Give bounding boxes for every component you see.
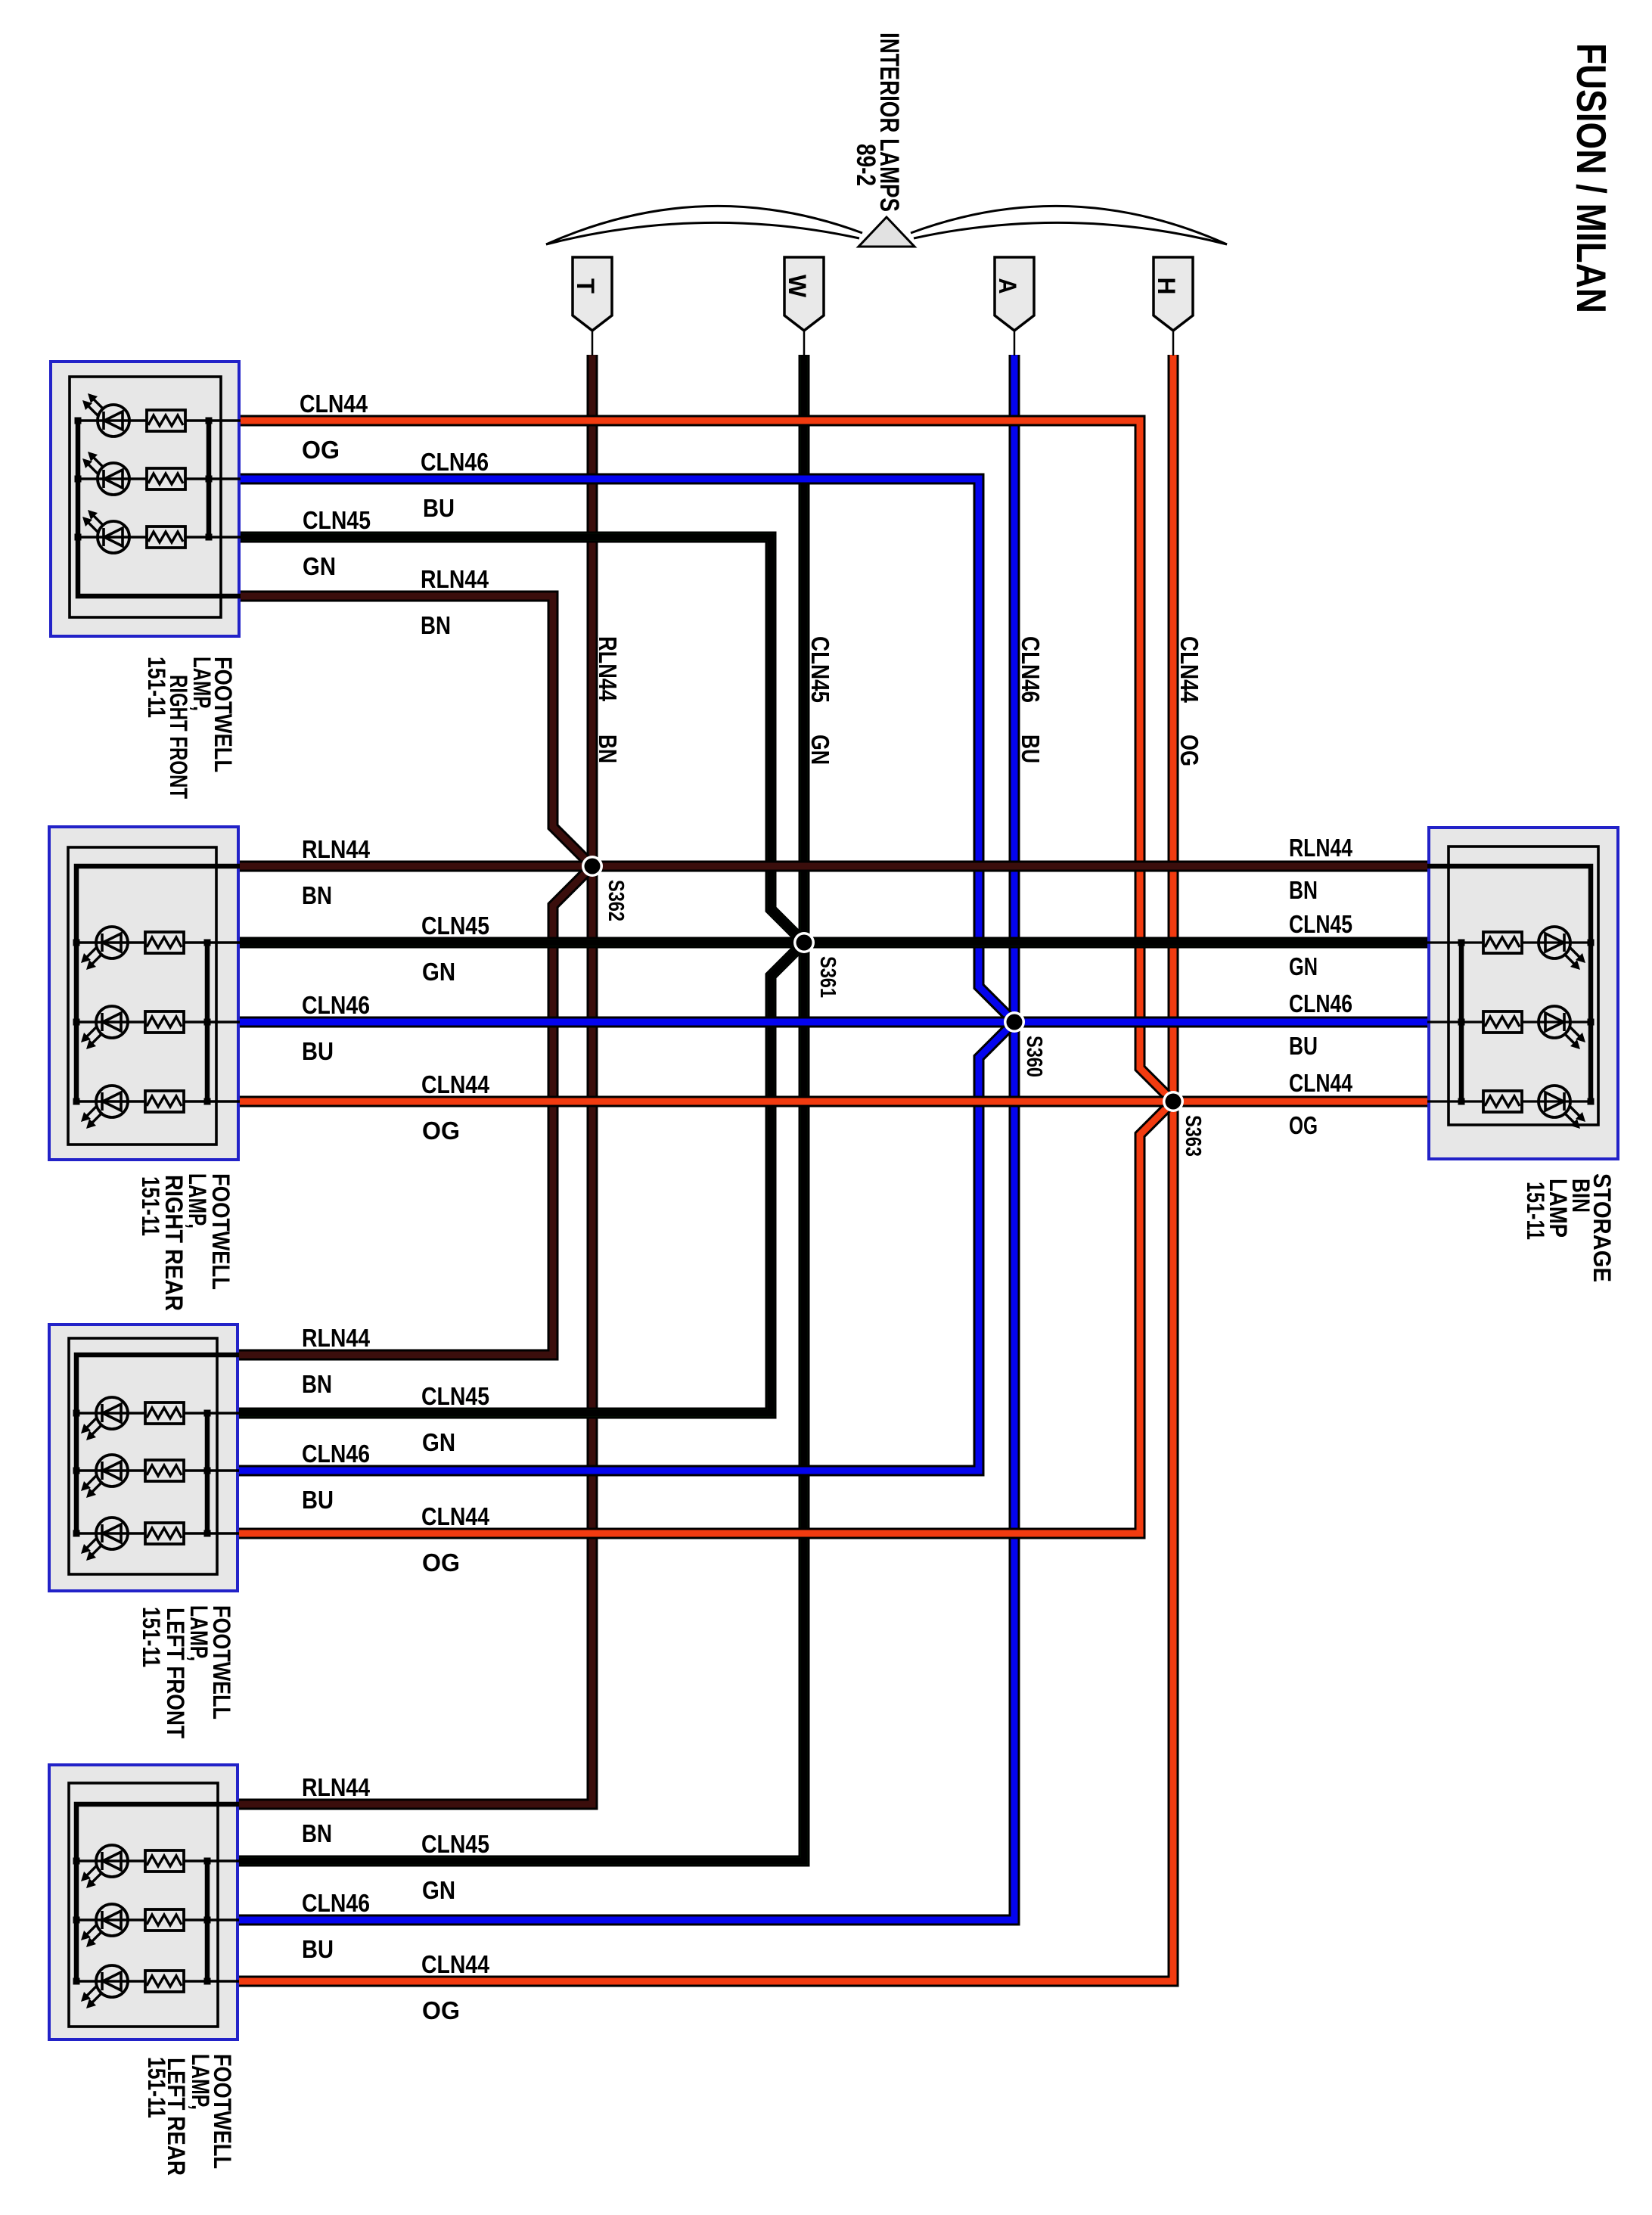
svg-text:CLN46: CLN46: [302, 1889, 370, 1917]
svg-text:151-11: 151-11: [137, 1176, 164, 1236]
FOOTWELL LAMP LEFT REAR LED 2: [81, 1904, 128, 1947]
splice junction S362: [582, 856, 603, 877]
FOOTWELL LAMP RIGHT REAR resistor 2: [145, 1011, 184, 1033]
wire CLN46 BU from FOOTWELL LAMP RIGHT REAR to STORAGE BIN LAMP: [233, 1017, 1435, 1028]
FOOTWELL LAMP RIGHT FRONT LED 1: [82, 393, 129, 436]
FOOTWELL LAMP LEFT FRONT inner case: [69, 1338, 217, 1574]
FOOTWELL LAMP LEFT REAR junction dots row 2: [73, 1917, 211, 1924]
FOOTWELL LAMP LEFT REAR row 1 wire: [76, 1859, 239, 1862]
svg-text:CLN46: CLN46: [302, 991, 370, 1019]
FOOTWELL LAMP RIGHT FRONT LED 2: [82, 452, 129, 495]
FOOTWELL LAMP LEFT REAR junction dots row 1: [73, 1858, 211, 1865]
svg-text:T: T: [572, 278, 599, 294]
FOOTWELL LAMP LEFT FRONT LED 1: [81, 1397, 128, 1440]
FOOTWELL LAMP RIGHT FRONT return bus: [78, 421, 241, 596]
svg-text:CLN44: CLN44: [421, 1950, 490, 1978]
FOOTWELL LAMP RIGHT REAR row 1 wire: [76, 941, 240, 944]
FOOTWELL LAMP RIGHT FRONT resistor 2: [147, 468, 185, 489]
FOOTWELL LAMP LEFT REAR supply bus: [205, 1861, 210, 1981]
FOOTWELL LAMP LEFT REAR row 2 wire: [76, 1918, 239, 1921]
svg-text:CLN44: CLN44: [1175, 636, 1203, 704]
FOOTWELL LAMP LEFT REAR return bus: [76, 1804, 239, 1981]
svg-text:CLN44: CLN44: [300, 390, 368, 418]
connector box FOOTWELL LAMP RIGHT FRONT (outer): [51, 362, 239, 636]
svg-text:151-11: 151-11: [143, 657, 170, 718]
wire CLN45 GN trunk from flag W to FOOTWELL LAMP LEFT REAR: [233, 355, 804, 1861]
FOOTWELL LAMP RIGHT FRONT resistor 1: [147, 410, 185, 431]
STORAGE BIN LAMP LED 1: [1539, 927, 1585, 970]
STORAGE BIN LAMP LED 2: [1539, 1006, 1585, 1049]
svg-text:OG: OG: [1175, 735, 1203, 766]
svg-text:CLN45: CLN45: [303, 506, 371, 534]
FOOTWELL LAMP RIGHT FRONT junction dots row 2: [75, 476, 213, 483]
FOOTWELL LAMP LEFT FRONT resistor 1: [145, 1403, 184, 1424]
svg-text:S361: S361: [815, 956, 840, 998]
FOOTWELL LAMP LEFT FRONT return bus: [76, 1355, 239, 1533]
STORAGE BIN LAMP junction dots row 1: [1458, 940, 1595, 946]
svg-text:BN: BN: [1289, 876, 1318, 904]
wire CLN46 BU trunk from flag A to FOOTWELL LAMP LEFT REAR: [233, 355, 1014, 1920]
FOOTWELL LAMP RIGHT FRONT supply bus: [206, 421, 212, 537]
svg-text:CLN45: CLN45: [421, 912, 489, 940]
FOOTWELL LAMP RIGHT REAR LED 3: [81, 1086, 128, 1129]
svg-text:RLN44: RLN44: [421, 565, 489, 593]
harness brace left arc: [546, 206, 862, 244]
FOOTWELL LAMP RIGHT REAR row 2 wire: [76, 1021, 240, 1024]
connector box FOOTWELL LAMP RIGHT REAR (outer): [49, 827, 238, 1160]
wire CLN44 OG trunk from flag H to FOOTWELL LAMP LEFT REAR: [233, 355, 1173, 1981]
svg-text:CLN46: CLN46: [302, 1440, 370, 1468]
svg-text:RLN44: RLN44: [1289, 834, 1353, 862]
STORAGE BIN LAMP row 2 wire: [1427, 1021, 1591, 1023]
svg-text:LEFT FRONT: LEFT FRONT: [162, 1608, 189, 1738]
svg-text:RLN44: RLN44: [594, 636, 622, 702]
wire CLN45 GN link RIGHT FRONT to S361 to LEFT FRONT: [233, 537, 804, 1413]
connector box FOOTWELL LAMP LEFT REAR (outer): [49, 1765, 238, 2039]
svg-text:S363: S363: [1181, 1115, 1205, 1157]
STORAGE BIN LAMP junction dots row 3: [1458, 1098, 1595, 1105]
STORAGE BIN LAMP return bus: [1427, 866, 1591, 1101]
circuit flag T: [572, 257, 612, 356]
FOOTWELL LAMP RIGHT REAR return bus: [76, 866, 240, 1101]
svg-text:OG: OG: [1289, 1111, 1318, 1139]
FOOTWELL LAMP LEFT REAR resistor 3: [145, 1971, 184, 1992]
svg-text:CLN45: CLN45: [1289, 910, 1352, 938]
FOOTWELL LAMP LEFT FRONT LED 3: [81, 1518, 128, 1561]
svg-text:BN: BN: [302, 1819, 332, 1847]
svg-text:S362: S362: [604, 880, 628, 921]
svg-text:BU: BU: [302, 1037, 334, 1065]
STORAGE BIN LAMP junction dots row 2: [1458, 1019, 1595, 1026]
splice junction S363: [1163, 1091, 1184, 1112]
svg-text:RLN44: RLN44: [302, 1773, 371, 1801]
FOOTWELL LAMP RIGHT REAR resistor 3: [145, 1091, 184, 1112]
svg-text:GN: GN: [422, 1428, 455, 1456]
STORAGE BIN LAMP resistor 3: [1483, 1091, 1522, 1112]
svg-text:S360: S360: [1022, 1036, 1046, 1077]
FOOTWELL LAMP LEFT FRONT resistor 2: [145, 1460, 184, 1481]
svg-text:CLN46: CLN46: [1289, 989, 1352, 1017]
STORAGE BIN LAMP supply bus: [1459, 943, 1464, 1101]
connector box STORAGE BIN LAMP (outer): [1429, 828, 1618, 1159]
svg-text:BU: BU: [1017, 735, 1045, 763]
svg-text:CLN44: CLN44: [421, 1070, 490, 1098]
FOOTWELL LAMP RIGHT REAR supply bus: [205, 943, 210, 1101]
FOOTWELL LAMP LEFT REAR LED 1: [81, 1845, 128, 1888]
FOOTWELL LAMP LEFT FRONT resistor 3: [145, 1523, 184, 1544]
wire CLN46 BU link RIGHT FRONT to S360 to LEFT FRONT: [233, 479, 1014, 1471]
circuit flag A: [994, 257, 1034, 356]
FOOTWELL LAMP LEFT REAR row 3 wire: [76, 1980, 239, 1983]
svg-text:RLN44: RLN44: [302, 1324, 371, 1352]
svg-text:GN: GN: [1289, 952, 1318, 980]
svg-text:OG: OG: [422, 1117, 460, 1145]
FOOTWELL LAMP LEFT REAR LED 3: [81, 1965, 128, 2008]
svg-text:CLN44: CLN44: [1289, 1069, 1353, 1097]
svg-text:BU: BU: [302, 1486, 334, 1514]
FOOTWELL LAMP LEFT REAR resistor 1: [145, 1850, 184, 1872]
FOOTWELL LAMP LEFT FRONT junction dots row 1: [73, 1410, 211, 1417]
svg-text:151-11: 151-11: [1522, 1182, 1549, 1240]
FOOTWELL LAMP LEFT FRONT LED 2: [81, 1455, 128, 1498]
svg-text:A: A: [994, 278, 1021, 294]
FOOTWELL LAMP RIGHT FRONT junction dots row 1: [75, 418, 213, 424]
FOOTWELL LAMP RIGHT REAR row 3 wire: [76, 1100, 240, 1103]
wire CLN44 OG from FOOTWELL LAMP RIGHT REAR to STORAGE BIN LAMP: [233, 1096, 1435, 1107]
FOOTWELL LAMP LEFT REAR inner case: [69, 1783, 218, 2027]
harness brace right arc: [911, 206, 1227, 244]
svg-text:H: H: [1153, 278, 1180, 295]
svg-text:W: W: [784, 275, 811, 298]
svg-text:OG: OG: [422, 1996, 460, 2024]
FOOTWELL LAMP LEFT REAR junction dots row 3: [73, 1978, 211, 1985]
circuit flag W: [784, 257, 824, 356]
FOOTWELL LAMP RIGHT REAR LED 1: [81, 927, 128, 970]
FOOTWELL LAMP LEFT FRONT row 1 wire: [76, 1412, 239, 1415]
FOOTWELL LAMP RIGHT FRONT row 2 wire: [78, 477, 241, 480]
FOOTWELL LAMP LEFT REAR resistor 2: [145, 1909, 184, 1931]
svg-text:GN: GN: [806, 735, 834, 765]
svg-text:CLN45: CLN45: [421, 1382, 489, 1410]
svg-text:CLN46: CLN46: [1017, 636, 1045, 703]
svg-text:BU: BU: [302, 1935, 334, 1963]
wire RLN44 BN link RIGHT FRONT to S362 to LEFT FRONT: [233, 596, 592, 1355]
FOOTWELL LAMP LEFT FRONT row 3 wire: [76, 1532, 239, 1535]
FOOTWELL LAMP RIGHT FRONT resistor 3: [147, 527, 185, 548]
svg-text:OG: OG: [302, 436, 340, 464]
harness brace center triangle: [859, 217, 914, 247]
FOOTWELL LAMP LEFT FRONT junction dots row 2: [73, 1468, 211, 1474]
FOOTWELL LAMP RIGHT FRONT row 1 wire: [78, 419, 241, 422]
svg-text:FUSION / MILAN: FUSION / MILAN: [1568, 43, 1615, 313]
svg-text:RLN44: RLN44: [302, 835, 371, 863]
wire CLN44 OG link RIGHT FRONT to S363 to LEFT FRONT: [233, 421, 1173, 1533]
FOOTWELL LAMP LEFT FRONT junction dots row 3: [73, 1530, 211, 1537]
wire RLN44 BN trunk from flag T to FOOTWELL LAMP LEFT REAR: [233, 355, 592, 1804]
FOOTWELL LAMP RIGHT REAR inner case: [68, 847, 216, 1145]
svg-text:CLN45: CLN45: [421, 1830, 489, 1858]
FOOTWELL LAMP LEFT FRONT supply bus: [205, 1413, 210, 1533]
svg-text:151-11: 151-11: [143, 2057, 170, 2118]
splice junction S360: [1004, 1011, 1025, 1033]
circuit flag H: [1153, 257, 1193, 356]
FOOTWELL LAMP LEFT FRONT row 2 wire: [76, 1469, 239, 1472]
wire RLN44 BN from FOOTWELL LAMP RIGHT REAR to STORAGE BIN LAMP: [233, 861, 1435, 872]
svg-text:151-11: 151-11: [138, 1607, 165, 1667]
svg-text:BU: BU: [1289, 1032, 1318, 1060]
FOOTWELL LAMP RIGHT REAR junction dots row 2: [73, 1019, 211, 1026]
svg-text:89-2: 89-2: [851, 144, 880, 186]
FOOTWELL LAMP RIGHT REAR junction dots row 1: [73, 940, 211, 946]
svg-text:GN: GN: [422, 1876, 455, 1904]
FOOTWELL LAMP RIGHT FRONT row 3 wire: [78, 536, 241, 539]
STORAGE BIN LAMP resistor 1: [1483, 932, 1522, 953]
FOOTWELL LAMP RIGHT FRONT LED 3: [82, 510, 129, 553]
STORAGE BIN LAMP row 3 wire: [1427, 1100, 1591, 1102]
svg-text:BU: BU: [423, 494, 455, 522]
svg-text:BN: BN: [302, 1370, 332, 1398]
STORAGE BIN LAMP inner case: [1449, 847, 1598, 1125]
svg-text:LAMP,: LAMP,: [187, 2054, 214, 2110]
svg-text:GN: GN: [303, 552, 336, 580]
svg-text:CLN46: CLN46: [421, 448, 489, 476]
FOOTWELL LAMP RIGHT REAR resistor 1: [145, 932, 184, 953]
connector box FOOTWELL LAMP LEFT FRONT (outer): [49, 1325, 238, 1591]
wire CLN45 GN from FOOTWELL LAMP RIGHT REAR to STORAGE BIN LAMP: [233, 937, 1435, 949]
splice junction S361: [793, 932, 815, 953]
STORAGE BIN LAMP LED 3: [1539, 1086, 1585, 1129]
svg-text:CLN45: CLN45: [806, 636, 834, 703]
FOOTWELL LAMP RIGHT REAR LED 2: [81, 1006, 128, 1049]
svg-text:GN: GN: [422, 958, 455, 986]
FOOTWELL LAMP RIGHT REAR junction dots row 3: [73, 1098, 211, 1105]
svg-text:CLN44: CLN44: [421, 1502, 490, 1530]
FOOTWELL LAMP RIGHT FRONT junction dots row 3: [75, 534, 213, 541]
svg-text:OG: OG: [422, 1549, 460, 1577]
svg-text:BN: BN: [594, 735, 622, 763]
svg-text:BN: BN: [302, 881, 332, 909]
STORAGE BIN LAMP row 1 wire: [1427, 941, 1591, 943]
STORAGE BIN LAMP resistor 2: [1483, 1011, 1522, 1033]
FOOTWELL LAMP RIGHT FRONT inner case: [70, 377, 221, 617]
svg-text:BN: BN: [421, 611, 451, 639]
